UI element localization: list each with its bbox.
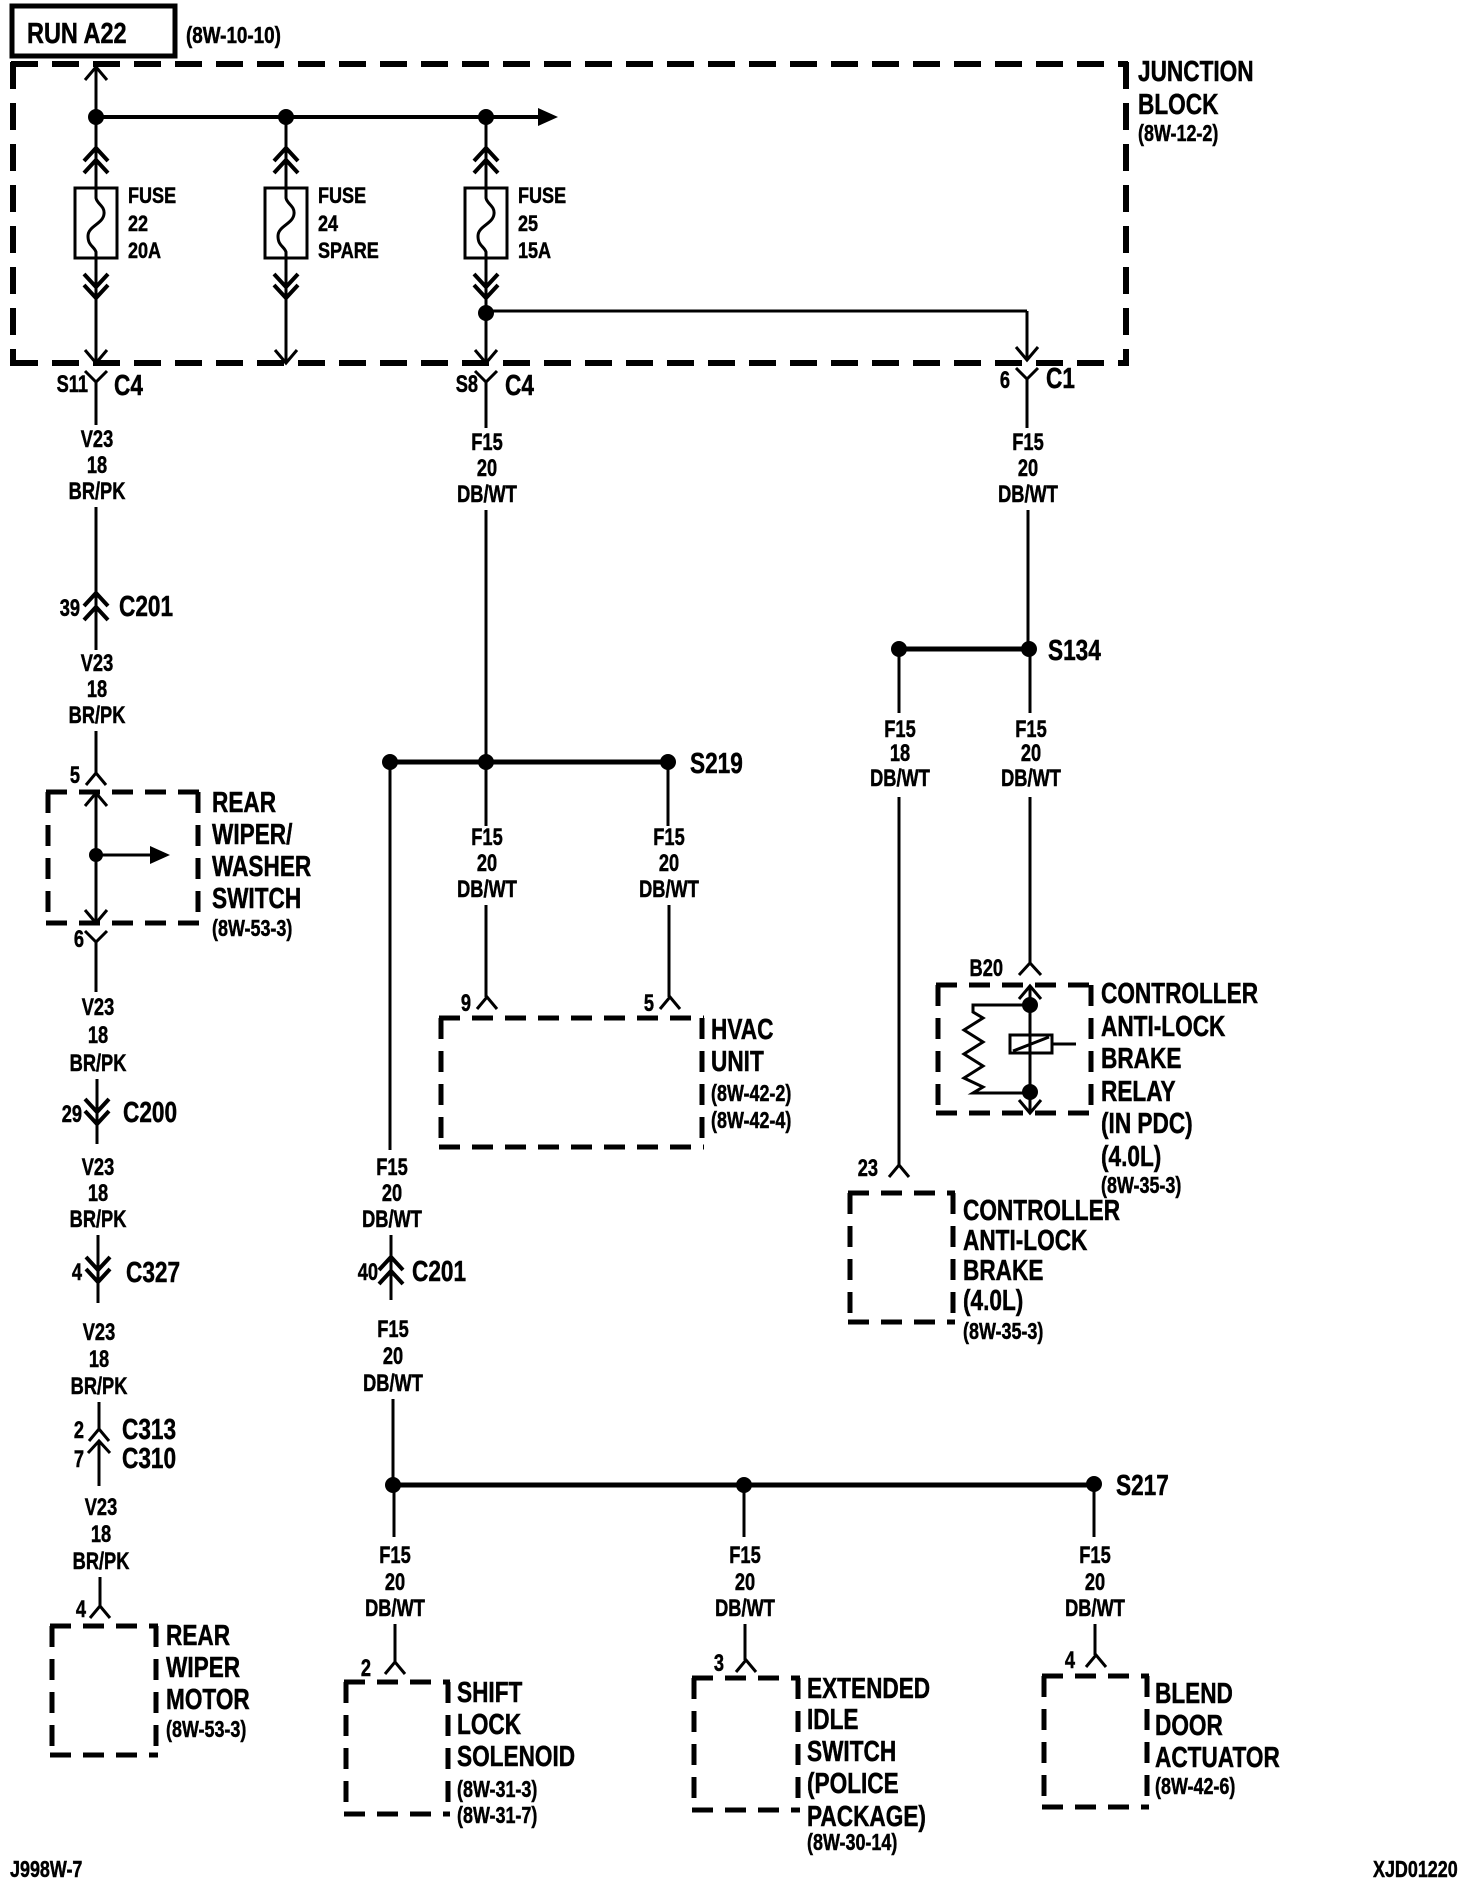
svg-text:(8W-10-10): (8W-10-10) <box>186 23 281 48</box>
wire segment to shift lock solenoid <box>394 1624 397 1662</box>
svg-text:WIPER: WIPER <box>166 1650 240 1683</box>
svg-text:SWITCH: SWITCH <box>807 1734 896 1767</box>
wire fuse 22 to connector C4 (arrow down) <box>85 258 107 363</box>
wire label F15 20 DB/WT <box>1001 716 1061 792</box>
wire segment to splice S217 <box>392 1399 395 1485</box>
wire label V23 18 BR/PK <box>69 426 126 505</box>
svg-text:F15: F15 <box>1079 1542 1111 1569</box>
svg-text:20: 20 <box>385 1569 405 1596</box>
svg-text:S219: S219 <box>690 746 743 779</box>
reference label (8W-42-6) <box>1155 1774 1235 1800</box>
junction dot below fuse 25 <box>478 305 494 321</box>
svg-text:(8W-42-2): (8W-42-2) <box>711 1081 791 1107</box>
svg-text:BR/PK: BR/PK <box>70 1206 127 1233</box>
svg-text:V23: V23 <box>85 1494 118 1521</box>
connector pin 6 below switch <box>74 926 107 992</box>
svg-text:V23: V23 <box>83 1319 116 1346</box>
svg-text:DB/WT: DB/WT <box>365 1595 425 1622</box>
svg-text:F15: F15 <box>471 429 503 456</box>
controller anti-lock brake relay box (dashed) <box>936 985 1093 1113</box>
svg-text:22: 22 <box>128 212 148 236</box>
connector C201 pin 39 <box>60 589 173 650</box>
svg-text:9: 9 <box>461 990 471 1017</box>
HVAC unit box (dashed) <box>439 1018 704 1147</box>
svg-text:(4.0L): (4.0L) <box>963 1283 1023 1316</box>
HVAC unit name <box>711 1012 774 1077</box>
power node RUN A22 (ignition run feed) <box>12 6 175 56</box>
svg-text:B20: B20 <box>970 955 1003 982</box>
wire label F15 20 DB/WT <box>457 429 517 508</box>
wire below S217 left <box>393 1485 396 1537</box>
svg-text:EXTENDED: EXTENDED <box>807 1671 930 1704</box>
wire label F15 20 DB/WT <box>998 429 1058 508</box>
svg-text:F15: F15 <box>379 1542 411 1569</box>
connector C4 pin S11 <box>57 368 144 402</box>
junction dot at fuse 24 feed <box>278 109 294 125</box>
shift lock solenoid box (dashed) <box>344 1682 450 1814</box>
wire label V23 18 BR/PK <box>70 994 127 1077</box>
svg-text:REAR: REAR <box>166 1618 230 1651</box>
svg-text:V23: V23 <box>81 426 114 453</box>
wire label V23 18 BR/PK <box>70 1154 127 1233</box>
svg-text:SHIFT: SHIFT <box>457 1675 522 1708</box>
svg-text:SWITCH: SWITCH <box>212 881 301 914</box>
wire below S217 middle <box>743 1485 746 1537</box>
svg-text:18: 18 <box>87 676 107 703</box>
wire label F15 18 DB/WT <box>870 716 930 792</box>
svg-text:JUNCTION: JUNCTION <box>1138 54 1254 87</box>
svg-text:BR/PK: BR/PK <box>71 1373 128 1400</box>
wire below S134 right <box>1029 649 1032 713</box>
svg-text:F15: F15 <box>376 1154 408 1181</box>
svg-text:PACKAGE): PACKAGE) <box>807 1799 926 1832</box>
svg-text:20: 20 <box>735 1569 755 1596</box>
rear wiper motor name <box>166 1618 250 1715</box>
connector C1 pin 6 <box>1000 361 1075 400</box>
svg-text:ANTI-LOCK: ANTI-LOCK <box>963 1223 1088 1256</box>
connector pin 5 at rear wiper/washer switch <box>70 762 106 789</box>
svg-text:V23: V23 <box>82 994 115 1021</box>
wire segment to rear wiper/washer switch <box>95 731 98 773</box>
wire label F15 20 DB/WT <box>363 1316 423 1397</box>
svg-text:C201: C201 <box>119 589 173 622</box>
wire label F15 20 DB/WT <box>362 1154 422 1233</box>
footer sheet number J998W-7 <box>10 1857 82 1883</box>
wire feed to fuse 25 <box>485 117 488 188</box>
svg-text:DB/WT: DB/WT <box>457 876 517 903</box>
switch internal arrow to washer feed <box>96 846 170 864</box>
relay bottom junction dot <box>1022 1084 1038 1100</box>
wire from S219 down-left branch <box>389 762 392 1150</box>
svg-text:(8W-53-3): (8W-53-3) <box>166 1717 246 1743</box>
svg-text:XJD01220: XJD01220 <box>1373 1857 1458 1883</box>
svg-text:(8W-53-3): (8W-53-3) <box>212 916 292 942</box>
wire below S134 left <box>898 649 901 713</box>
wire segment to blend door actuator <box>1094 1624 1097 1655</box>
svg-text:BR/PK: BR/PK <box>73 1548 130 1575</box>
controller anti-lock brake relay name <box>1101 976 1258 1172</box>
relay coil <box>1010 1035 1076 1053</box>
svg-text:UNIT: UNIT <box>711 1044 764 1077</box>
splice S217 <box>385 1468 1169 1501</box>
svg-text:4: 4 <box>72 1259 82 1286</box>
reference label (8W-35-3) <box>1101 1173 1181 1199</box>
svg-text:IDLE: IDLE <box>807 1702 859 1735</box>
reference label (8W-42-2) <box>711 1081 791 1107</box>
junction block name <box>1138 54 1254 120</box>
svg-text:18: 18 <box>89 1346 109 1373</box>
svg-text:(8W-42-6): (8W-42-6) <box>1155 1774 1235 1800</box>
svg-text:BRAKE: BRAKE <box>963 1253 1043 1286</box>
connector pin B20 at anti-lock brake relay <box>970 955 1041 982</box>
reference label (8W-12-2) <box>1138 121 1218 147</box>
svg-text:REAR: REAR <box>212 785 276 818</box>
svg-text:C4: C4 <box>505 368 534 401</box>
fuse 25 15A <box>465 148 566 298</box>
wire from S219 to HVAC pin 5 <box>667 762 670 826</box>
connector pin 2 at shift lock solenoid <box>361 1655 405 1682</box>
svg-text:WIPER/: WIPER/ <box>212 817 292 850</box>
reference label (8W-31-3) <box>457 1777 537 1803</box>
bus wire across fuses with arrow <box>96 108 558 126</box>
reference label (8W-53-3) <box>212 916 292 942</box>
svg-text:FUSE: FUSE <box>318 184 366 208</box>
reference label (8W-42-4) <box>711 1108 791 1134</box>
svg-text:6: 6 <box>74 926 84 953</box>
svg-text:DB/WT: DB/WT <box>870 765 930 792</box>
svg-text:S8: S8 <box>456 371 478 398</box>
svg-text:(POLICE: (POLICE <box>807 1766 899 1799</box>
svg-text:40: 40 <box>358 1259 378 1286</box>
switch internal junction dot <box>89 848 103 862</box>
svg-text:DB/WT: DB/WT <box>363 1370 423 1397</box>
svg-text:DB/WT: DB/WT <box>1001 765 1061 792</box>
connector C4 pin S8 <box>456 368 535 402</box>
connector pin 9 at HVAC unit <box>461 990 497 1017</box>
svg-text:HVAC: HVAC <box>711 1012 774 1045</box>
svg-text:C310: C310 <box>122 1441 176 1474</box>
svg-text:S134: S134 <box>1048 633 1101 666</box>
svg-text:(8W-31-7): (8W-31-7) <box>457 1803 537 1829</box>
svg-text:SPARE: SPARE <box>318 239 379 263</box>
svg-text:20: 20 <box>659 850 679 877</box>
svg-text:F15: F15 <box>653 824 685 851</box>
relay feed wire with arrows <box>1019 986 1041 1113</box>
svg-text:(4.0L): (4.0L) <box>1101 1139 1161 1172</box>
wire label V23 18 BR/PK <box>69 650 126 729</box>
svg-text:S11: S11 <box>57 371 89 398</box>
svg-text:23: 23 <box>858 1155 878 1182</box>
svg-text:CONTROLLER: CONTROLLER <box>963 1193 1120 1226</box>
svg-text:BLOCK: BLOCK <box>1138 87 1219 120</box>
svg-text:4: 4 <box>1065 1647 1075 1674</box>
rear wiper/washer switch name <box>212 785 311 914</box>
svg-text:ANTI-LOCK: ANTI-LOCK <box>1101 1009 1226 1042</box>
svg-text:DB/WT: DB/WT <box>457 481 517 508</box>
svg-text:F15: F15 <box>1012 429 1044 456</box>
splice S134 <box>891 633 1101 666</box>
svg-text:DB/WT: DB/WT <box>715 1595 775 1622</box>
svg-text:RELAY: RELAY <box>1101 1074 1176 1107</box>
wire label F15 20 DB/WT <box>457 824 517 903</box>
junction dot at fuse 25 feed <box>478 109 494 125</box>
svg-text:18: 18 <box>88 1180 108 1207</box>
controller anti-lock brake name <box>963 1193 1120 1316</box>
svg-text:DB/WT: DB/WT <box>1065 1595 1125 1622</box>
wire F15 20 DB/WT from C1 <box>1026 400 1029 428</box>
relay top junction dot <box>1022 997 1038 1013</box>
svg-text:FUSE: FUSE <box>128 184 176 208</box>
svg-text:(IN PDC): (IN PDC) <box>1101 1106 1193 1139</box>
wire label V23 18 BR/PK <box>71 1319 128 1400</box>
fuse 22 20A <box>75 148 176 298</box>
wire from RUN A22 into junction block (arrow up) <box>85 66 107 117</box>
wire label F15 20 DB/WT <box>715 1542 775 1622</box>
svg-text:(8W-30-14): (8W-30-14) <box>807 1830 897 1856</box>
reference label (8W-10-10) <box>186 23 281 48</box>
svg-text:20: 20 <box>1085 1569 1105 1596</box>
wire segment to splice S134 <box>1027 510 1030 649</box>
svg-text:F15: F15 <box>884 716 916 743</box>
svg-text:MOTOR: MOTOR <box>166 1682 250 1715</box>
wire segment to extended idle switch <box>744 1624 747 1660</box>
connector pin 4 at rear wiper motor <box>76 1596 110 1623</box>
reference label (8W-35-3) <box>963 1319 1043 1345</box>
svg-text:(8W-31-3): (8W-31-3) <box>457 1777 537 1803</box>
svg-text:BR/PK: BR/PK <box>69 478 126 505</box>
connector C201 pin 40 <box>358 1254 466 1287</box>
svg-text:(8W-35-3): (8W-35-3) <box>963 1319 1043 1345</box>
junction block boundary (dashed) <box>11 62 1128 366</box>
controller anti-lock brake box (dashed) <box>848 1193 955 1322</box>
shift lock solenoid name <box>457 1675 575 1772</box>
svg-text:29: 29 <box>62 1101 82 1128</box>
wire below S217 right <box>1093 1485 1096 1537</box>
svg-text:20: 20 <box>382 1180 402 1207</box>
footer drawing number XJD01220 <box>1373 1857 1458 1883</box>
svg-text:V23: V23 <box>82 1154 115 1181</box>
blend door actuator name <box>1155 1676 1280 1773</box>
connector pin 23 at controller anti-lock brake <box>858 1155 909 1182</box>
svg-text:20A: 20A <box>128 239 161 263</box>
rear wiper/washer switch box (dashed) <box>46 792 200 923</box>
svg-text:FUSE: FUSE <box>518 184 566 208</box>
svg-text:18: 18 <box>890 740 910 767</box>
svg-text:F15: F15 <box>729 1542 761 1569</box>
svg-text:18: 18 <box>91 1521 111 1548</box>
wire segment to C201 pin 40 <box>390 1235 393 1300</box>
svg-text:5: 5 <box>644 990 654 1017</box>
connector pin 3 at extended idle switch <box>714 1650 756 1677</box>
svg-text:LOCK: LOCK <box>457 1707 521 1740</box>
svg-text:20: 20 <box>383 1343 403 1370</box>
svg-text:20: 20 <box>477 455 497 482</box>
wire segment to splice S219 <box>485 510 488 762</box>
svg-text:C201: C201 <box>412 1254 466 1287</box>
wire V23 18 BR/PK segment 1 <box>95 402 98 425</box>
switch internal wire with arrows <box>85 793 107 923</box>
svg-text:2: 2 <box>361 1655 371 1682</box>
wire segment to C313/C310 <box>98 1402 101 1429</box>
svg-text:BR/PK: BR/PK <box>70 1050 127 1077</box>
svg-text:DOOR: DOOR <box>1155 1708 1223 1741</box>
wire feed to fuse 22 <box>95 117 98 188</box>
connector pin 5 at HVAC unit <box>644 990 680 1017</box>
svg-text:20: 20 <box>1018 455 1038 482</box>
blend door actuator box (dashed) <box>1042 1676 1149 1807</box>
svg-text:F15: F15 <box>471 824 503 851</box>
extended idle switch name <box>807 1671 930 1832</box>
svg-text:DB/WT: DB/WT <box>639 876 699 903</box>
svg-text:20: 20 <box>1021 740 1041 767</box>
wire segment to C200 <box>96 1079 99 1124</box>
svg-text:DB/WT: DB/WT <box>998 481 1058 508</box>
wire segment to relay B20 <box>1029 797 1032 963</box>
wire label F15 20 DB/WT <box>1065 1542 1125 1622</box>
extended idle switch box (dashed) <box>692 1678 800 1810</box>
reference label (8W-30-14) <box>807 1830 897 1856</box>
wire fuse 25 node to connector C4 (arrow down) <box>475 313 497 363</box>
rear wiper motor box (dashed) <box>50 1626 158 1755</box>
wire segment to controller anti-lock brake <box>898 797 901 1165</box>
wire fuse 25 node across to connector C1 <box>486 311 1038 360</box>
wire label F15 20 DB/WT <box>639 824 699 903</box>
svg-text:F15: F15 <box>1015 716 1047 743</box>
svg-text:7: 7 <box>74 1446 84 1473</box>
svg-text:SOLENOID: SOLENOID <box>457 1739 575 1772</box>
svg-text:DB/WT: DB/WT <box>362 1206 422 1233</box>
svg-text:18: 18 <box>88 1022 108 1049</box>
fuse 24 spare <box>265 148 379 298</box>
wire label F15 20 DB/WT <box>365 1542 425 1622</box>
svg-text:15A: 15A <box>518 239 551 263</box>
splice S219 <box>382 746 743 779</box>
svg-text:S217: S217 <box>1116 1468 1169 1501</box>
svg-text:3: 3 <box>714 1650 724 1677</box>
svg-text:(8W-35-3): (8W-35-3) <box>1101 1173 1181 1199</box>
connector pin 4 at blend door actuator <box>1065 1647 1106 1674</box>
wire fuse 25 down to node <box>485 258 488 313</box>
svg-text:C200: C200 <box>123 1095 177 1128</box>
svg-text:25: 25 <box>518 212 538 236</box>
connector C327 pin 4 <box>72 1255 180 1303</box>
svg-text:(8W-12-2): (8W-12-2) <box>1138 121 1218 147</box>
connector C200 pin 29 <box>62 1095 177 1144</box>
wire segment to HVAC pin 9 <box>485 905 488 997</box>
svg-text:C327: C327 <box>126 1255 180 1288</box>
wire feed to fuse 24 <box>285 117 288 188</box>
svg-text:4: 4 <box>76 1596 86 1623</box>
svg-text:BR/PK: BR/PK <box>69 702 126 729</box>
svg-text:J998W-7: J998W-7 <box>10 1857 82 1883</box>
svg-text:BRAKE: BRAKE <box>1101 1041 1181 1074</box>
svg-text:6: 6 <box>1000 367 1010 394</box>
svg-text:20: 20 <box>477 850 497 877</box>
wire label V23 18 BR/PK <box>73 1494 130 1575</box>
svg-text:C4: C4 <box>114 368 143 401</box>
wire fuse 24 to junction block edge (arrow down) <box>275 258 297 363</box>
wire segment to C201 <box>95 507 98 594</box>
svg-text:ACTUATOR: ACTUATOR <box>1155 1740 1280 1773</box>
svg-text:RUN A22: RUN A22 <box>27 17 127 50</box>
connector C313 pin 2 / C310 pin 7 <box>74 1412 176 1486</box>
svg-text:V23: V23 <box>81 650 114 677</box>
reference label (8W-53-3) <box>166 1717 246 1743</box>
svg-text:F15: F15 <box>377 1316 409 1343</box>
reference label (8W-31-7) <box>457 1803 537 1829</box>
wire segment to C327 <box>97 1235 100 1282</box>
wire from S219 to HVAC pin 9 <box>485 762 488 826</box>
junction dot at fuse 22 feed <box>88 109 104 125</box>
svg-text:24: 24 <box>318 212 339 236</box>
svg-text:C1: C1 <box>1046 361 1075 394</box>
wire segment to HVAC pin 5 <box>668 905 671 997</box>
relay economizer resistor <box>964 1005 1030 1093</box>
wire segment to rear wiper motor <box>99 1577 102 1606</box>
wire F15 20 DB/WT from C4 S8 <box>485 402 488 428</box>
svg-text:(8W-42-4): (8W-42-4) <box>711 1108 791 1134</box>
svg-text:WASHER: WASHER <box>212 849 311 882</box>
svg-text:2: 2 <box>74 1417 84 1444</box>
svg-text:39: 39 <box>60 595 80 622</box>
svg-text:5: 5 <box>70 762 80 789</box>
svg-text:18: 18 <box>87 452 107 479</box>
svg-text:CONTROLLER: CONTROLLER <box>1101 976 1258 1009</box>
svg-text:BLEND: BLEND <box>1155 1676 1233 1709</box>
